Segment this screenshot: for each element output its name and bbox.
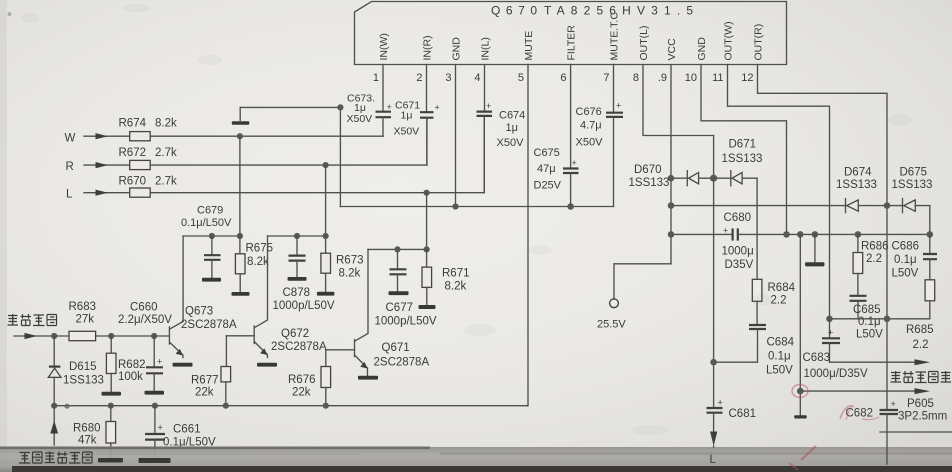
- svg-text:GND: GND: [450, 37, 462, 61]
- ground bar Q671 emitter: [358, 376, 378, 380]
- band texture streaks: [60, 452, 952, 455]
- svg-text:2: 2: [416, 72, 422, 84]
- transistor Q672 collector wire: [255, 236, 268, 328]
- svg-text:+: +: [616, 101, 621, 111]
- svg-text:R672: R672: [119, 147, 147, 159]
- resistor R684: [752, 234, 762, 324]
- svg-text:2SC2878A: 2SC2878A: [271, 341, 327, 353]
- ground bar small below x800: [794, 415, 807, 418]
- svg-text:R674: R674: [119, 118, 147, 130]
- ground bar below R682: [102, 392, 122, 396]
- wire ground line pin1 area to ground vertical: [240, 106, 340, 108]
- svg-text:Q671: Q671: [382, 342, 410, 354]
- pin 10 lead wire down right down: [701, 65, 787, 235]
- pin 12 lead wire down right down long: [758, 65, 888, 410]
- resistor R672: [130, 160, 151, 169]
- L input arrowhead: [96, 190, 109, 196]
- node rail D615 dot: [51, 403, 57, 409]
- red pen circle at output node: [792, 385, 808, 398]
- svg-text:1000p/L50V: 1000p/L50V: [273, 300, 335, 312]
- svg-text:IN(R): IN(R): [421, 35, 433, 60]
- ground bar Q673 emitter: [173, 363, 193, 367]
- wire mixer line C from Q671 collector: [368, 248, 427, 250]
- svg-text:R670: R670: [119, 175, 147, 187]
- svg-text:W: W: [65, 133, 76, 145]
- wire W signal vertical down to mixer line A: [239, 136, 241, 236]
- scan noise dot top left: [8, 12, 12, 16]
- svg-text:FILTER: FILTER: [565, 25, 577, 61]
- svg-text:3: 3: [445, 72, 451, 84]
- wire L signal vertical down to mixer line C: [426, 193, 428, 250]
- red pen blob bottom left of band: [789, 463, 798, 470]
- ground bar below R675: [232, 292, 250, 296]
- node mute C660 dot: [151, 333, 157, 339]
- node output junction dot x800: [797, 388, 804, 395]
- label subwoofer output chinese 重低音输出: [891, 371, 952, 383]
- svg-text:2SC2878A: 2SC2878A: [374, 357, 430, 369]
- ground bar R680 overlay: [98, 458, 123, 463]
- svg-text:27k: 27k: [76, 313, 95, 325]
- svg-text:1SS133: 1SS133: [629, 177, 670, 189]
- svg-text:12: 12: [741, 72, 753, 84]
- svg-text:1SS133: 1SS133: [836, 179, 877, 191]
- transistor Q673 base wire: [154, 335, 169, 337]
- svg-text:C685: C685: [853, 304, 881, 316]
- pin 6 lead wire: [570, 65, 572, 168]
- svg-text:1SS133: 1SS133: [722, 153, 763, 165]
- svg-text:C679: C679: [197, 205, 223, 217]
- svg-text:C684: C684: [767, 337, 795, 349]
- capacitor C684: [714, 325, 766, 362]
- svg-text:D675: D675: [900, 166, 928, 178]
- mute input arrowhead: [25, 333, 38, 339]
- svg-text:5: 5: [518, 72, 524, 84]
- svg-text:C681: C681: [729, 408, 757, 420]
- node pin8 C684 junction dot: [710, 359, 717, 366]
- transistor Q673 collector wire: [170, 236, 183, 329]
- R input arrowhead: [96, 162, 109, 168]
- red pen marks near C682: [840, 405, 879, 420]
- transistor Q671 emitter with arrow: [355, 356, 368, 376]
- svg-text:2.2: 2.2: [771, 294, 787, 306]
- svg-text:L: L: [66, 189, 73, 201]
- svg-text:X50V: X50V: [497, 137, 525, 149]
- svg-text:R680: R680: [73, 422, 101, 434]
- pin 2 lead wire: [426, 65, 428, 112]
- wire row3 right segment: [738, 233, 929, 235]
- wire VCC row2 line to D674: [671, 205, 846, 207]
- ground bar below C878: [288, 277, 307, 281]
- transistor Q673 base bar: [168, 327, 170, 344]
- svg-text:X50V: X50V: [347, 113, 373, 125]
- node line B R673 dot: [323, 233, 329, 239]
- capacitor C878: [289, 236, 306, 277]
- resistor R670: [130, 188, 151, 197]
- label mute control chinese 静音控制: [8, 314, 57, 326]
- svg-text:8.2k: 8.2k: [247, 256, 269, 268]
- resistor R680: [106, 406, 116, 458]
- svg-text:R683: R683: [69, 301, 97, 313]
- capacitor C677: [390, 249, 407, 290]
- node C683 line pin12 dot: [884, 316, 891, 323]
- node line B C878 dot: [294, 233, 300, 239]
- svg-text:C683: C683: [803, 352, 831, 364]
- resistor R677: [221, 336, 231, 406]
- ground bar below C677: [389, 291, 409, 295]
- bottom scan band: [0, 447, 952, 472]
- capacitor C660: [146, 336, 163, 390]
- ground bar C661 overlay: [139, 458, 171, 463]
- svg-text:L50V: L50V: [766, 365, 793, 377]
- svg-text:1μ: 1μ: [401, 110, 413, 122]
- resistor R673: [321, 236, 331, 291]
- wire row3 ground stub: [814, 234, 816, 261]
- svg-text:1000p/L50V: 1000p/L50V: [375, 315, 437, 327]
- wire L arrow stub: [713, 446, 715, 447]
- capacitor C676 plates: [606, 101, 623, 207]
- node R line junction dot: [323, 162, 329, 168]
- node row3 R686 dot: [855, 231, 862, 238]
- svg-text:C661: C661: [173, 423, 201, 435]
- wire D671 output down to row3: [756, 178, 758, 234]
- svg-text:47k: 47k: [78, 435, 97, 447]
- diode D671: [731, 171, 757, 186]
- node line C C677 dot: [394, 246, 400, 252]
- svg-text:+: +: [723, 226, 728, 236]
- resistor R686: [853, 234, 863, 294]
- ground bar below row3 stub: [805, 262, 825, 266]
- svg-text:+: +: [486, 101, 491, 111]
- ground bar below C661: [139, 458, 171, 463]
- capacitor C679: [204, 236, 221, 277]
- transistor Q672 base wire: [226, 335, 254, 337]
- svg-text:4.7μ: 4.7μ: [580, 120, 602, 132]
- node rail R677 dot: [223, 403, 229, 409]
- capacitor C682 electrolytic: [880, 399, 899, 414]
- pin 5 lead long mute wire down: [527, 65, 529, 406]
- capacitor C683 electrolytic: [822, 319, 840, 362]
- svg-text:8.2k: 8.2k: [339, 267, 361, 279]
- ground bar below C660: [145, 391, 165, 395]
- pin 8 lead wire down then right: [643, 65, 714, 136]
- svg-text:8: 8: [633, 72, 639, 84]
- node rail R676 dot: [323, 403, 329, 409]
- transistor Q672 emitter with arrow: [255, 342, 268, 358]
- svg-text:X50V: X50V: [394, 126, 420, 138]
- svg-text:R677: R677: [191, 374, 219, 386]
- pin 3 lead wire to ground line: [455, 65, 457, 207]
- ground bar Q672 emitter: [257, 363, 277, 367]
- svg-text:7: 7: [603, 72, 609, 84]
- capacitor C681 electrolytic: [707, 397, 723, 431]
- svg-text:8.2k: 8.2k: [445, 280, 467, 292]
- svg-text:6: 6: [560, 72, 566, 84]
- wire x800 vertical row3 to output node: [799, 234, 801, 414]
- wire ground stub with bar near C673: [239, 107, 241, 120]
- svg-text:22k: 22k: [195, 387, 214, 399]
- svg-text:2.7k: 2.7k: [155, 147, 177, 159]
- svg-text:D674: D674: [844, 166, 872, 178]
- node C683 pin11 dot: [826, 316, 833, 323]
- svg-text:R675: R675: [246, 242, 274, 254]
- diode D670: [687, 171, 731, 186]
- svg-text:+: +: [435, 103, 440, 113]
- svg-text:4: 4: [474, 72, 480, 84]
- svg-text:R686: R686: [861, 240, 889, 252]
- op-amp IC U Q670 TA8256HV31.5 box outline: [355, 2, 787, 65]
- svg-text:OUT(R): OUT(R): [752, 24, 764, 61]
- svg-text:Q673: Q673: [185, 306, 213, 318]
- node C675 ground dot: [567, 203, 574, 210]
- node row3 x800 dot: [797, 231, 804, 238]
- scan noise dot near rail: [64, 404, 69, 409]
- svg-text:GND: GND: [696, 37, 708, 61]
- node pin3 ground dot: [452, 203, 458, 209]
- wire W input line: [84, 135, 383, 137]
- svg-text:25.5V: 25.5V: [597, 319, 626, 331]
- transistor Q672 base bar: [253, 326, 255, 344]
- svg-text:C878: C878: [283, 287, 311, 299]
- resistor R674: [130, 132, 151, 141]
- label power-off mute control chinese 关机静音控制: [19, 452, 92, 464]
- transistor Q673 emitter with arrow: [170, 343, 183, 358]
- svg-text:8.2k: 8.2k: [155, 118, 177, 130]
- resistor R683: [69, 331, 96, 340]
- pin 9 VCC lead wire down: [670, 65, 672, 264]
- svg-text:0.1μ: 0.1μ: [858, 316, 881, 328]
- bottom band dark streak left: [0, 447, 430, 450]
- svg-text:D35V: D35V: [725, 259, 754, 271]
- svg-text:L50V: L50V: [892, 267, 919, 279]
- svg-text:1SS133: 1SS133: [63, 374, 104, 386]
- node VCC row1 dot: [668, 175, 675, 182]
- svg-text:.9: .9: [658, 72, 667, 84]
- ground bar left of pin1 net: [232, 121, 250, 124]
- svg-text:1000μ: 1000μ: [722, 245, 754, 257]
- wire VCC row1 to D670: [671, 177, 687, 179]
- resistor R671: [422, 249, 432, 304]
- wire C683 top line: [830, 318, 930, 320]
- node L line junction dot: [424, 190, 430, 196]
- svg-text:MUTE.T.C: MUTE.T.C: [608, 12, 620, 61]
- W input arrowhead: [96, 133, 109, 139]
- svg-text:C660: C660: [130, 301, 158, 313]
- capacitor C671 plates: [420, 103, 440, 166]
- wire power-off mute input stub with up arrow: [50, 406, 58, 445]
- svg-text:+: +: [828, 327, 833, 337]
- redraw chinese and bars over band: [19, 414, 887, 466]
- diode D675: [903, 199, 930, 235]
- svg-text:L: L: [710, 454, 717, 466]
- svg-text:11: 11: [712, 72, 723, 84]
- ground bar below C679: [202, 278, 221, 282]
- ground bar below R671: [419, 305, 436, 309]
- wire L input line: [84, 116, 484, 193]
- capacitor C686: [923, 234, 937, 279]
- svg-text:D615: D615: [69, 361, 97, 373]
- svg-text:R685: R685: [906, 324, 934, 336]
- svg-text:22k: 22k: [292, 387, 311, 399]
- svg-text:OUT(L): OUT(L): [638, 26, 650, 61]
- svg-text:P605: P605: [907, 398, 934, 410]
- wire R signal vertical down to mixer line B: [325, 165, 327, 236]
- node rail R680 dot: [108, 403, 114, 409]
- svg-text:47μ: 47μ: [537, 163, 556, 175]
- svg-text:100k: 100k: [118, 371, 143, 383]
- svg-text:2.2μ/X50V: 2.2μ/X50V: [118, 314, 172, 326]
- resistor R676: [321, 350, 331, 406]
- transistor Q671 base wire: [326, 349, 355, 351]
- pin 4 lead wire: [484, 65, 486, 112]
- wire ground horizontal line to C676 bottom: [340, 206, 613, 208]
- svg-text:C675: C675: [534, 147, 560, 159]
- svg-text:1SS133: 1SS133: [892, 179, 933, 191]
- svg-text:L50V: L50V: [856, 329, 883, 341]
- svg-text:0.1μ: 0.1μ: [894, 254, 917, 266]
- node line A C679 dot: [209, 233, 215, 239]
- bottom dark page edge strip: [12, 466, 952, 472]
- node ground corner dot: [337, 104, 343, 110]
- diode D615: [48, 336, 61, 406]
- svg-text:2.7k: 2.7k: [155, 175, 177, 187]
- svg-text:2.2: 2.2: [913, 339, 929, 351]
- node rail C661 dot: [152, 403, 158, 409]
- svg-text:R673: R673: [336, 255, 364, 267]
- svg-text:1μ: 1μ: [506, 122, 518, 134]
- diode D674: [846, 199, 903, 213]
- wire OUT L net vertical down to C681: [713, 136, 715, 409]
- capacitor C674 plates: [477, 101, 493, 193]
- svg-text:R684: R684: [768, 282, 796, 294]
- node row3 D675 corner dot: [927, 231, 934, 238]
- red pen diagonal in band: [801, 446, 816, 460]
- svg-text:+: +: [387, 102, 392, 112]
- wire mute input line: [14, 335, 154, 337]
- pin 7 lead wire: [613, 65, 615, 113]
- svg-text:C677: C677: [386, 302, 414, 314]
- wire mute rail bottom: [54, 405, 528, 407]
- node line C R671 dot: [424, 246, 430, 252]
- node 25.5V terminal circle: [610, 299, 619, 308]
- node row2 pin12 dot: [884, 202, 891, 209]
- svg-text:1: 1: [373, 72, 379, 84]
- transistor Q671 collector wire: [355, 249, 368, 341]
- svg-text:Q672: Q672: [281, 328, 309, 340]
- svg-text:+: +: [158, 423, 163, 433]
- svg-text:R671: R671: [442, 268, 470, 280]
- svg-text:D671: D671: [729, 139, 757, 151]
- svg-text:C686: C686: [892, 240, 920, 252]
- svg-text:2SC2878A: 2SC2878A: [181, 319, 237, 331]
- capacitor C675 plates: [563, 158, 579, 207]
- capacitor C685: [850, 296, 867, 319]
- node row3 pin10 dot: [783, 231, 790, 238]
- svg-text:X50V: X50V: [576, 137, 604, 149]
- svg-text:+: +: [718, 397, 723, 407]
- svg-text:MUTE: MUTE: [523, 31, 535, 61]
- svg-text:OUT(W): OUT(W): [722, 21, 734, 60]
- svg-text:10: 10: [685, 72, 697, 84]
- capacitor C680 electrolytic horizontal: [723, 226, 738, 241]
- wire subwoofer output arrow line upper: [830, 359, 931, 365]
- svg-text:+: +: [157, 357, 162, 367]
- arrow down to L output: [710, 432, 717, 447]
- svg-text:VCC: VCC: [666, 38, 678, 61]
- svg-text:R: R: [66, 161, 74, 173]
- svg-text:D670: D670: [634, 164, 662, 176]
- wire stray connector line bottom right: [880, 431, 952, 433]
- node line A R675 dot: [237, 233, 243, 239]
- node mute R682 dot: [108, 333, 114, 339]
- wire subwoofer output arrow line lower: [800, 388, 930, 394]
- wire 25.5V supply branch: [614, 264, 671, 299]
- svg-text:1000μ/D35V: 1000μ/D35V: [804, 368, 869, 380]
- resistor R682: [106, 336, 116, 391]
- svg-text:C680: C680: [724, 212, 752, 224]
- svg-text:IN(W): IN(W): [378, 33, 390, 60]
- transistor Q671 base bar: [354, 340, 356, 357]
- resistor R685: [925, 280, 935, 319]
- label power-off mute chinese overlay: [19, 452, 92, 464]
- svg-text:+: +: [572, 158, 577, 168]
- wire row3 left segment: [671, 233, 732, 235]
- svg-text:IN(L): IN(L): [479, 37, 491, 60]
- ground bar below R680: [98, 458, 123, 463]
- node VCC row3 dot: [668, 231, 675, 238]
- svg-text:D25V: D25V: [534, 180, 562, 192]
- pin 1 lead wire: [382, 65, 384, 112]
- svg-text:C674: C674: [499, 110, 525, 122]
- wire ground vertical down: [339, 107, 341, 206]
- svg-text:+: +: [891, 399, 896, 409]
- svg-text:3P2.5mm: 3P2.5mm: [898, 411, 947, 423]
- resistor R675: [235, 236, 245, 292]
- svg-text:0.1μ/L50V: 0.1μ/L50V: [181, 217, 232, 229]
- svg-text:R682: R682: [118, 359, 146, 371]
- svg-text:0.1μ: 0.1μ: [768, 351, 791, 363]
- wire R input line: [84, 118, 427, 165]
- node VCC row2 dot: [668, 202, 675, 209]
- capacitor C661: [145, 406, 165, 458]
- pin 11 lead wire down right down to C683 node: [728, 65, 830, 319]
- wire mixer line B from Q672 collector: [268, 235, 326, 237]
- node mute D615 dot: [51, 333, 57, 339]
- wire pin12 stub into band: [886, 414, 888, 464]
- svg-text:R676: R676: [288, 374, 316, 386]
- svg-text:C676: C676: [576, 106, 602, 118]
- node D670 D671 junction dot on pin8 line: [710, 175, 717, 182]
- ground bar below R673: [317, 292, 335, 296]
- node row3 ground stub dot: [812, 231, 819, 238]
- wire mixer line A from Q673 collector: [183, 235, 240, 237]
- capacitor C673 plates: [376, 102, 392, 136]
- svg-text:2.2: 2.2: [866, 253, 882, 265]
- left page edge shading: [0, 0, 7, 472]
- node W line junction dot: [237, 133, 243, 139]
